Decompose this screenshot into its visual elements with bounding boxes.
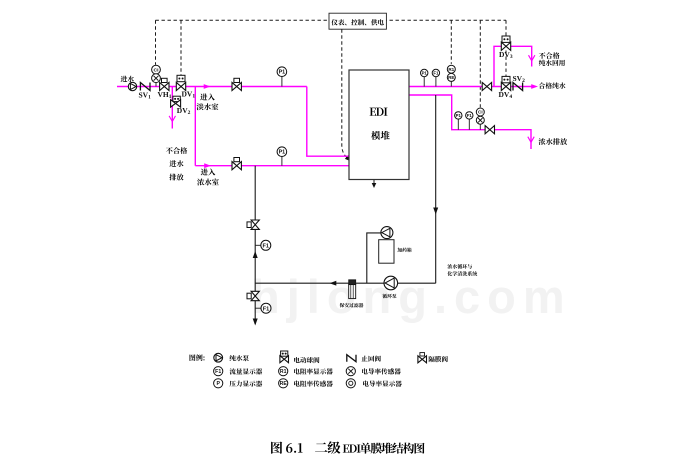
label reject pure water reuse (539, 52, 565, 66)
instrument P1 (dilute feed) (277, 67, 287, 87)
wire concentrate feed line (195, 165, 349, 167)
wire control drop to conductivity sensors (155, 20, 157, 65)
legend RE symbol (279, 379, 288, 388)
label DV1 (182, 90, 196, 100)
label concentrate discharge (539, 138, 567, 145)
filter (security filter) (349, 280, 356, 299)
svg-text:F1: F1 (467, 113, 473, 118)
svg-text:CI: CI (478, 110, 483, 115)
wire control drop to DV1 (180, 20, 182, 75)
legend R1 symbol (279, 367, 288, 376)
instrument F1 (discharge) (466, 112, 473, 130)
svg-text:CI: CI (154, 67, 160, 73)
arrow EDI module drain (372, 180, 377, 189)
caption figure 6.1 (271, 441, 424, 454)
legend label diaphragm valve (429, 356, 448, 362)
wire circulation loop line (255, 282, 436, 284)
wire product reject branch (494, 46, 532, 86)
label security filter (340, 303, 364, 308)
legend title (189, 354, 204, 361)
svg-text:P1: P1 (456, 113, 462, 118)
instrument F1 (product) (432, 69, 439, 86)
svg-text:P: P (216, 381, 220, 387)
svg-text:F1: F1 (215, 369, 221, 375)
instrument F1 (recirculation) (255, 240, 271, 250)
arrow drain down (253, 319, 258, 326)
valve DV1 (electric) (176, 75, 185, 90)
arrow feed into dilute cell (204, 84, 211, 89)
svg-text:R1: R1 (280, 369, 287, 375)
instrument CI display (discharge) (476, 108, 484, 116)
valve on recirculation line (247, 220, 259, 229)
legend label conductivity sensor (362, 368, 401, 374)
valve on product line (482, 82, 491, 90)
legend label resistivity display (294, 368, 333, 374)
svg-text:RE: RE (280, 381, 288, 387)
label dosing tank (397, 248, 411, 253)
dosing tank box (379, 240, 394, 264)
svg-text:F1: F1 (263, 243, 269, 249)
valve DV4 (electric) (501, 76, 510, 90)
label DV4 (499, 90, 513, 100)
check valve SV2 (513, 83, 523, 91)
legend check valve symbol (347, 355, 356, 362)
arrow product reject reuse (529, 55, 535, 61)
EDI module box (349, 70, 409, 180)
wire concentrate out to discharge (409, 95, 531, 149)
instrument P1 (discharge) (455, 112, 462, 130)
legend pump symbol (214, 353, 223, 362)
wire control rail (dashed) (156, 19, 507, 21)
legend label resistivity sensor (294, 380, 333, 386)
arrow product out (531, 84, 538, 89)
arrow reject drain (DV2) (169, 116, 175, 122)
valve on concentrate feed (232, 158, 241, 170)
label qualified pure water (539, 82, 566, 88)
wire control drop to CI sensor (479, 20, 481, 107)
instrument CI display (feed) (152, 65, 161, 74)
label VH1 (158, 90, 172, 100)
legend label conductivity display (363, 380, 402, 386)
wire feed corner down to dilute inlet (307, 87, 349, 157)
instrument conductivity sensor (discharge) (476, 116, 484, 130)
arrow loop up into concentrate feed (253, 251, 258, 258)
wire control line to EDI module (342, 29, 352, 161)
valve on discharge line (485, 126, 494, 134)
wire product line (409, 86, 534, 88)
legend label flow display (229, 368, 262, 374)
legend label pressure display (229, 381, 262, 387)
legend label pure water pump (230, 355, 249, 361)
label SV2 (513, 74, 526, 84)
label DV2 (177, 106, 191, 116)
legend label electric ball valve (294, 357, 319, 363)
wire sensor stub (155, 83, 157, 87)
label reject feed discharge (166, 147, 187, 180)
instrument RE sensor (product) (447, 73, 455, 86)
legend electric valve symbol (280, 351, 289, 363)
arrow recirculation down (433, 208, 438, 215)
wire control drop to R1 sensor (450, 20, 452, 64)
wire concentrate feed drop (194, 87, 196, 166)
wire concentrate recirculation down (435, 95, 437, 283)
svg-text:P1: P1 (279, 70, 286, 76)
instrument P1 (product) (421, 69, 428, 86)
svg-text:F1: F1 (433, 71, 439, 76)
arrow loop flow left (330, 281, 337, 286)
valve DV3 (electric) (501, 36, 510, 50)
legend conductivity display symbol (346, 379, 355, 388)
valve on drain line (247, 291, 259, 300)
label concentrate circulation system (447, 264, 477, 276)
svg-text:P1: P1 (279, 150, 286, 156)
check valve SV1 (140, 83, 150, 91)
valve on dilute feed (232, 78, 241, 90)
arrow feed into concentrate cell (204, 163, 211, 168)
pump dosing (381, 227, 393, 239)
legend label check valve (361, 355, 380, 361)
label circulation pump (382, 294, 396, 299)
svg-text:F1: F1 (263, 306, 269, 312)
svg-text:hjlong.com: hjlong.com (251, 270, 572, 323)
legend diaphragm valve symbol (418, 353, 427, 363)
instrument conductivity sensor (feed) (152, 74, 161, 83)
wire control drop DV3 to DV4 (505, 51, 507, 77)
wire control drop to DV3 (505, 20, 507, 36)
arrow concentrate discharge (528, 137, 534, 143)
instrument R1 display (product) (447, 65, 455, 73)
wire reject drain drop (DV2) (171, 87, 173, 129)
legend P symbol (214, 379, 223, 388)
valve VH1 (160, 78, 169, 90)
legend F1 symbol (214, 367, 223, 376)
svg-text:P1: P1 (422, 71, 428, 76)
svg-text:R1: R1 (448, 67, 454, 72)
wire dosing branch (367, 233, 381, 283)
pump circulation (384, 276, 398, 290)
valve DV2 (electric, drain) (171, 96, 181, 107)
pump feed (inlet) (128, 82, 136, 90)
label DV3 (499, 50, 513, 60)
label enter dilute cell (197, 93, 219, 110)
wire left loop vertical (254, 166, 256, 324)
instrument P1 (concentrate feed) (277, 147, 287, 166)
label enter concentrate cell (197, 168, 219, 185)
instrument F1 (drain) (255, 303, 271, 313)
watermark (251, 270, 572, 323)
svg-text:RE: RE (448, 75, 454, 80)
legend conductivity sensor symbol (346, 367, 355, 376)
node instrument-control-power box (329, 13, 386, 29)
label SV1 (139, 91, 152, 101)
label inlet water (121, 76, 134, 82)
wire feed water line (117, 86, 307, 88)
